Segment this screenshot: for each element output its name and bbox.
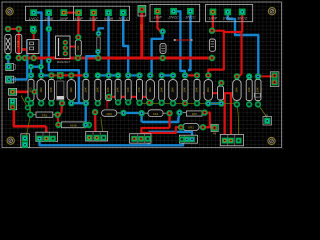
airwire xyxy=(21,96,28,108)
pad top xyxy=(147,72,153,78)
via xyxy=(174,39,176,41)
connector SV1 pin 1 xyxy=(29,9,40,21)
connector SV1 pin 6 xyxy=(104,9,113,21)
wire xyxy=(9,78,27,80)
wire xyxy=(58,103,62,114)
pad top xyxy=(159,72,165,78)
svg-text:1N4: 1N4 xyxy=(172,87,175,92)
wire xyxy=(224,93,226,140)
svg-text:CA1: CA1 xyxy=(153,112,159,116)
airwire xyxy=(101,117,103,136)
pad top xyxy=(28,72,34,78)
svg-text:1K5: 1K5 xyxy=(192,112,197,116)
resistor body xyxy=(255,79,261,102)
resistor body xyxy=(182,78,188,101)
diode GR1 pad right xyxy=(200,124,206,130)
resistor body xyxy=(169,78,177,101)
connector X1 xyxy=(6,64,16,71)
diode GR1 pad left xyxy=(178,124,184,130)
resistor R3 pad top xyxy=(209,28,215,34)
svg-text:GR1: GR1 xyxy=(188,125,194,129)
diode CR2 pad right xyxy=(120,110,126,116)
wire xyxy=(27,65,41,67)
wire CR2 left red xyxy=(95,114,97,138)
pad top xyxy=(68,72,74,78)
relay K1 pad top xyxy=(31,28,37,34)
wire xyxy=(175,39,192,41)
wire xyxy=(26,40,28,79)
resistor R3 xyxy=(209,39,215,51)
terminal block X9 outline xyxy=(180,135,198,143)
svg-text:10K: 10K xyxy=(127,87,130,92)
via VCC bus xyxy=(31,55,37,61)
pad top xyxy=(246,73,252,79)
resistor body xyxy=(159,78,165,101)
svg-text:10K: 10K xyxy=(184,87,187,92)
mounting hole bottom-right xyxy=(267,136,276,145)
pad top xyxy=(95,72,101,78)
svg-text:VCC: VCC xyxy=(140,24,144,30)
resistor body xyxy=(106,78,112,101)
pad xyxy=(218,100,224,106)
terminal block X6 outline xyxy=(36,132,58,141)
mounting hole bottom-left xyxy=(6,136,15,145)
wire xyxy=(33,31,35,58)
wire SV2-3 net xyxy=(188,11,191,70)
connector SV1 outline xyxy=(26,6,130,20)
wire xyxy=(86,52,98,76)
terminal block X7 pads xyxy=(86,135,106,141)
terminal block X9 pads xyxy=(179,136,190,142)
pad top xyxy=(125,72,131,78)
svg-text:1/VCC: 1/VCC xyxy=(58,57,68,61)
via xyxy=(191,39,193,41)
wire xyxy=(13,109,47,127)
wire SV1-1 net xyxy=(34,13,42,40)
wire xyxy=(92,13,94,31)
resistor EH3 xyxy=(62,122,86,128)
wire xyxy=(258,75,275,78)
svg-text:2/VCC: 2/VCC xyxy=(222,16,234,20)
resistor TP1 xyxy=(33,112,55,117)
wire xyxy=(8,28,19,30)
connector SV2 outline xyxy=(150,4,200,21)
wire xyxy=(77,37,79,58)
terminal block X10 pads xyxy=(222,138,242,144)
airwire xyxy=(237,104,238,134)
svg-text:3/INP: 3/INP xyxy=(60,17,69,21)
terminal block X8 pads xyxy=(131,136,150,142)
svg-text:1N4: 1N4 xyxy=(40,87,43,92)
wire xyxy=(184,98,186,101)
wire left blue column xyxy=(7,57,10,67)
svg-text:1N4: 1N4 xyxy=(70,87,73,92)
label VCC vertical xyxy=(140,24,144,30)
label box xyxy=(254,93,260,97)
airwire xyxy=(139,103,234,105)
diode CA1 pad right xyxy=(166,110,172,116)
resistor body xyxy=(194,78,200,101)
pad xyxy=(28,64,34,70)
wire VCC bus xyxy=(19,57,212,60)
wire xyxy=(18,29,20,58)
resistor EH3 pad left xyxy=(55,122,61,128)
terminal block X9 pad 3 xyxy=(189,137,195,143)
resistor body xyxy=(95,78,101,101)
pad top xyxy=(170,72,176,78)
jumper H6 xyxy=(211,124,218,135)
wire xyxy=(40,40,43,67)
svg-text:TP1: TP1 xyxy=(42,113,48,117)
connector X2 xyxy=(6,76,16,83)
pad mid xyxy=(106,94,112,100)
diode D2 xyxy=(16,34,22,53)
test point TP pad xyxy=(138,6,145,13)
wire xyxy=(99,28,105,33)
diode D3 pad top xyxy=(96,31,102,37)
terminal block X6 pads xyxy=(37,136,56,142)
resistor body xyxy=(125,78,131,101)
svg-text:2/INB: 2/INB xyxy=(43,17,53,21)
diode D3 pad bottom xyxy=(95,49,101,55)
jumper H2 xyxy=(270,72,279,87)
diode CA1 pad left xyxy=(138,110,144,116)
test point TP outline xyxy=(138,6,146,17)
pad top xyxy=(234,73,240,79)
svg-text:1/INP: 1/INP xyxy=(153,16,162,20)
svg-text:1N4: 1N4 xyxy=(207,87,210,92)
pad bottom xyxy=(170,100,176,106)
svg-text:102: 102 xyxy=(77,45,80,50)
wire CR2 net xyxy=(124,112,142,114)
resistor body xyxy=(37,78,45,101)
wire xyxy=(40,67,43,76)
svg-text:1/INP: 1/INP xyxy=(209,16,218,20)
pad bottom xyxy=(136,100,142,106)
connector SV1 pin 7 xyxy=(118,9,129,21)
svg-text:10K: 10K xyxy=(257,87,260,92)
svg-text:2/VCC: 2/VCC xyxy=(168,16,180,20)
pad bottom xyxy=(125,99,131,105)
connector SV1 pin 5 xyxy=(89,9,98,21)
wire xyxy=(212,12,214,31)
wire xyxy=(224,32,242,76)
resistor DR1 xyxy=(183,111,202,116)
wire xyxy=(149,132,192,140)
pad square xyxy=(57,72,64,79)
pad xyxy=(92,109,98,115)
pad top xyxy=(115,72,121,78)
diode D1 xyxy=(5,34,11,53)
wire xyxy=(107,99,109,109)
pad bottom xyxy=(246,101,252,107)
pad bottom xyxy=(83,100,89,106)
svg-text:10K: 10K xyxy=(96,87,99,92)
svg-text:4/INP: 4/INP xyxy=(74,17,83,21)
connector SV1 pin 2 xyxy=(43,9,53,21)
svg-text:7/VCC: 7/VCC xyxy=(118,17,129,21)
svg-text:1/VCC: 1/VCC xyxy=(29,17,40,21)
diode D1 pad bottom xyxy=(5,54,11,60)
pad bottom xyxy=(28,100,34,106)
resistor body xyxy=(67,78,75,101)
svg-text:5/INP: 5/INP xyxy=(89,17,98,21)
svg-text:10K: 10K xyxy=(160,87,163,92)
resistor R2 pad bottom xyxy=(160,55,166,61)
pad xyxy=(218,80,224,86)
wire bottom pads bus xyxy=(71,102,88,104)
via VCC bus xyxy=(75,55,81,61)
pad xyxy=(59,100,65,106)
wire xyxy=(158,11,163,31)
connector X5 xyxy=(21,134,30,148)
wire xyxy=(65,46,78,48)
svg-text:VCC: VCC xyxy=(113,57,120,61)
pad bottom xyxy=(255,101,261,107)
pad top xyxy=(105,72,111,78)
svg-text:H6: H6 xyxy=(213,131,217,135)
terminal block X10 outline xyxy=(220,134,243,145)
resistor body xyxy=(83,78,89,101)
connector SV3 pin 3 xyxy=(237,9,248,21)
svg-text:CR2: CR2 xyxy=(106,112,112,116)
airwire xyxy=(233,93,235,104)
board outline xyxy=(2,2,281,148)
wire xyxy=(49,61,79,104)
connector SV2 pin 2 xyxy=(168,8,180,20)
svg-text:1/VCC: 1/VCC xyxy=(145,57,155,61)
pad xyxy=(46,58,52,64)
wire xyxy=(220,85,222,93)
svg-text:10K: 10K xyxy=(107,87,110,92)
relay K1 xyxy=(27,40,39,54)
via VCC bus xyxy=(16,55,22,61)
resistor body xyxy=(48,78,54,101)
pad bottom xyxy=(159,100,165,106)
airwire xyxy=(258,89,262,105)
svg-text:10K: 10K xyxy=(85,87,88,92)
svg-text:10K: 10K xyxy=(138,87,141,92)
node pad xyxy=(46,26,52,32)
pad top xyxy=(194,72,200,78)
node pad xyxy=(30,26,36,32)
svg-text:4148: 4148 xyxy=(17,40,20,47)
resistor TP1 pad right xyxy=(54,112,60,118)
wire xyxy=(203,92,233,94)
connector SV2 pin 3 xyxy=(185,8,196,20)
svg-text:10K: 10K xyxy=(248,87,251,92)
connector SV3 pin 1 xyxy=(209,9,218,21)
resistor DR1 pad right xyxy=(201,109,207,115)
connector SV3 pin 2 xyxy=(222,9,234,21)
diode GR1 xyxy=(183,123,199,130)
resistor body xyxy=(218,86,224,101)
resistor R3 pad bottom xyxy=(209,55,215,61)
wire xyxy=(140,113,142,122)
wire xyxy=(208,31,224,76)
pad top xyxy=(83,72,89,78)
diode CA1 xyxy=(145,110,167,117)
resistor body xyxy=(28,78,34,101)
resistor DR1 pad left xyxy=(176,109,182,115)
wire SV3-2 net xyxy=(228,12,259,77)
wire xyxy=(64,13,79,38)
pad xyxy=(32,89,38,95)
pad xyxy=(146,100,152,106)
svg-text:H1: H1 xyxy=(265,113,269,117)
connector SV3 outline xyxy=(206,4,253,21)
pad bottom xyxy=(194,100,200,106)
pad bottom xyxy=(182,100,188,106)
pad top xyxy=(182,72,188,78)
airwire xyxy=(258,104,267,117)
pad top xyxy=(255,73,261,79)
terminal block X8 outline xyxy=(130,134,152,144)
wire xyxy=(230,93,232,140)
wire xyxy=(147,132,149,146)
wire xyxy=(169,113,171,128)
label BAS16LT xyxy=(57,60,71,64)
wire DR1-H6 red xyxy=(205,113,212,128)
wire block3 net xyxy=(141,128,169,139)
resistor body xyxy=(57,78,64,100)
pad bottom xyxy=(38,100,44,106)
resistor body xyxy=(137,78,143,101)
pad top xyxy=(38,72,44,78)
wire TP1 VCC feed xyxy=(140,12,143,58)
pad bottom xyxy=(95,100,101,106)
svg-text:10K: 10K xyxy=(50,87,53,92)
connector X4 xyxy=(9,98,17,110)
wire row blue jumpers xyxy=(41,74,51,76)
svg-text:3/VCC: 3/VCC xyxy=(185,16,196,20)
wire SV1-2 net xyxy=(48,13,50,61)
diode D1 pad top xyxy=(5,26,11,32)
resistor R1 pad top xyxy=(75,34,81,40)
svg-text:VCC: VCC xyxy=(185,56,192,60)
pad bottom xyxy=(48,100,54,106)
pad xyxy=(25,97,31,103)
svg-text:1N4: 1N4 xyxy=(149,87,152,92)
wire xyxy=(185,74,197,76)
connector X3 xyxy=(9,88,17,95)
wire left-bottom red xyxy=(13,91,35,94)
wire xyxy=(51,74,86,76)
diode CR2 xyxy=(102,110,121,116)
wire xyxy=(40,78,42,103)
jumper H1 xyxy=(263,113,272,125)
pad top xyxy=(205,72,211,78)
wire xyxy=(209,102,222,105)
terminal block X7 outline xyxy=(86,132,108,142)
wire TP1-EH3 link xyxy=(57,115,60,125)
wire SV1-6 net xyxy=(107,13,109,76)
label VCC xyxy=(185,56,192,60)
connector SV1 pin 3 xyxy=(60,9,69,21)
resistor body xyxy=(204,78,212,101)
pad top xyxy=(136,72,142,78)
svg-text:10K: 10K xyxy=(196,87,199,92)
wire xyxy=(142,127,182,133)
mounting hole top-left xyxy=(5,7,14,16)
wire xyxy=(128,74,139,76)
resistor R2 xyxy=(160,44,166,54)
wire SV1-7 net xyxy=(123,13,128,76)
wire xyxy=(30,67,32,76)
pad bottom xyxy=(205,100,211,106)
label VCC xyxy=(58,57,68,61)
wire CR4-H6 red xyxy=(203,126,212,128)
wire xyxy=(142,113,180,122)
resistor body xyxy=(246,79,252,102)
svg-text:4148: 4148 xyxy=(70,124,77,128)
resistor TP1 pad left xyxy=(27,112,33,118)
diode D3 xyxy=(97,37,100,50)
svg-text:1N4: 1N4 xyxy=(236,87,239,92)
label VCC xyxy=(145,57,155,61)
airwire xyxy=(28,100,31,115)
resistor body xyxy=(146,78,154,101)
pad bottom xyxy=(147,100,153,106)
wire mid red H xyxy=(109,97,149,103)
pad xyxy=(83,122,89,128)
resistor EH3 pad right xyxy=(86,122,92,128)
resistor R1 xyxy=(75,40,81,56)
airwire xyxy=(27,103,31,135)
via VCC bus xyxy=(22,55,28,61)
wire xyxy=(86,103,88,125)
diode D2 pad top xyxy=(16,26,22,32)
svg-text:6/INB: 6/INB xyxy=(104,17,113,21)
pad bottom xyxy=(68,100,74,106)
pad top xyxy=(48,72,54,78)
resistor R2 pad top xyxy=(159,28,165,34)
pad xyxy=(25,105,31,111)
svg-text:3/VCC: 3/VCC xyxy=(237,16,248,20)
label VCC xyxy=(113,57,120,61)
wire bottom blue bus xyxy=(40,139,187,146)
wire xyxy=(162,74,173,76)
pad xyxy=(38,64,44,70)
mounting hole top-right xyxy=(267,7,276,16)
svg-text:10K: 10K xyxy=(117,87,120,92)
wire xyxy=(241,14,243,32)
resistor body xyxy=(115,78,121,101)
wire xyxy=(19,50,34,54)
transistor Q1 xyxy=(56,36,71,59)
pad bottom xyxy=(234,101,240,107)
wire SV2-1 via link xyxy=(152,33,163,75)
connector SV2 pin 1 xyxy=(153,8,162,20)
resistor body xyxy=(233,79,241,102)
wire xyxy=(98,74,118,76)
connector SV1 pin 4 xyxy=(74,9,83,21)
wire SV2-2 net xyxy=(174,11,185,75)
wire xyxy=(45,126,48,138)
pad bottom xyxy=(115,99,121,105)
via VCC bus xyxy=(95,55,101,61)
